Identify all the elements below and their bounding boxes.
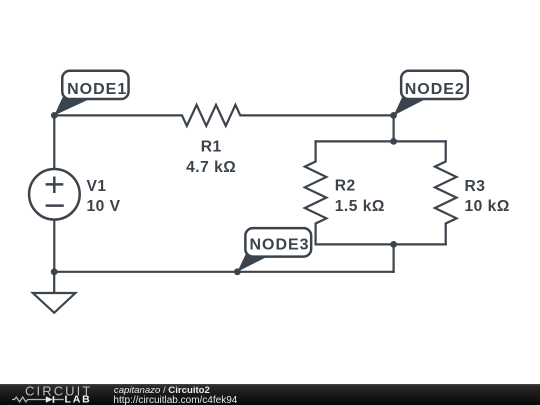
svg-text:10 kΩ: 10 kΩ: [465, 198, 510, 215]
svg-text:R1: R1: [201, 139, 222, 156]
svg-text:http://circuitlab.com/c4fek94: http://circuitlab.com/c4fek94: [113, 395, 237, 405]
svg-text:LAB: LAB: [65, 393, 92, 405]
svg-text:NODE2: NODE2: [405, 81, 465, 98]
svg-text:R3: R3: [465, 178, 486, 195]
svg-text:1.5 kΩ: 1.5 kΩ: [335, 198, 385, 215]
svg-text:10 V: 10 V: [87, 198, 121, 215]
svg-text:NODE3: NODE3: [249, 236, 309, 253]
svg-text:4.7 kΩ: 4.7 kΩ: [186, 159, 236, 176]
svg-text:R2: R2: [335, 178, 356, 195]
svg-text:NODE1: NODE1: [67, 81, 127, 98]
svg-text:V1: V1: [87, 178, 107, 195]
